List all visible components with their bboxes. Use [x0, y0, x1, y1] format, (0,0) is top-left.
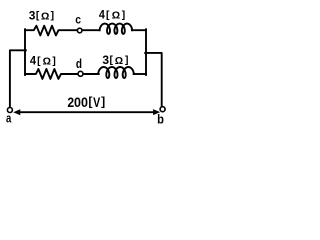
- svg-text:3: 3: [29, 9, 36, 23]
- svg-text:a: a: [6, 111, 12, 126]
- svg-text:Ω: Ω: [43, 57, 51, 68]
- svg-text:c: c: [75, 13, 81, 27]
- svg-text:[: [: [88, 94, 92, 108]
- svg-text:V: V: [93, 94, 101, 110]
- svg-text:[: [: [109, 55, 113, 66]
- svg-text:]: ]: [52, 56, 55, 67]
- svg-text:[: [: [37, 56, 41, 67]
- svg-text:3: 3: [102, 53, 109, 67]
- svg-text:Ω: Ω: [112, 11, 120, 22]
- svg-text:4: 4: [30, 54, 36, 68]
- svg-text:]: ]: [101, 94, 105, 108]
- svg-text:Ω: Ω: [41, 12, 49, 23]
- svg-text:Ω: Ω: [115, 56, 123, 67]
- svg-text:]: ]: [125, 55, 128, 66]
- svg-text:[: [: [36, 11, 40, 22]
- svg-text:[: [: [106, 10, 110, 21]
- svg-text:4: 4: [99, 8, 105, 22]
- svg-text:b: b: [157, 112, 164, 127]
- svg-text:0: 0: [81, 94, 88, 110]
- svg-text:]: ]: [51, 11, 54, 22]
- svg-text:]: ]: [122, 10, 125, 21]
- svg-text:d: d: [76, 56, 82, 71]
